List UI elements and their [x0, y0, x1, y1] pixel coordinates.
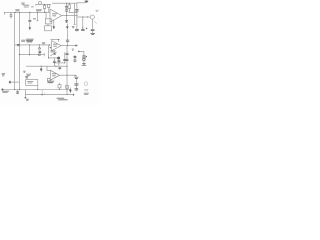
potentiometer dark blob — [57, 57, 60, 60]
label faint far right — [96, 10, 99, 11]
wire H6 with capacitor — [9, 81, 20, 83]
resistor R4 on Vc — [65, 86, 68, 89]
capacitor below H7 left — [17, 90, 19, 95]
label under ground right — [82, 65, 87, 67]
wire drop x25.4 with ground — [24, 90, 26, 98]
label bottom left — [26, 99, 29, 100]
wire U2 upper input — [51, 40, 59, 42]
ground below U1 — [53, 20, 55, 26]
dark label above box — [25, 77, 28, 78]
ground below H4 — [40, 66, 42, 68]
terminal mark H8 — [73, 94, 75, 96]
label corner text — [21, 3, 25, 4]
wire U1 output — [62, 15, 77, 17]
wire top rail right section — [52, 2, 86, 4]
label below U3 — [47, 81, 54, 82]
capacitor on drop 54.3 — [53, 58, 55, 66]
terminal mark output2 — [75, 45, 77, 47]
capacitor C11 — [83, 57, 85, 58]
node dot on rail — [44, 4, 45, 5]
label small text — [42, 43, 45, 44]
box power supply — [26, 80, 38, 86]
capacitor below blob — [58, 59, 60, 66]
ground bars — [91, 33, 96, 34]
diode D1 drop — [38, 45, 41, 55]
resistor R6 — [58, 85, 61, 88]
resistor R1 — [43, 5, 45, 8]
label smudge — [23, 71, 25, 72]
node left terminal stub — [3, 12, 5, 14]
ground at C4 chain — [66, 24, 68, 26]
label text above tone — [50, 51, 55, 52]
wire bus H7 — [2, 89, 70, 91]
wire top rail left section — [36, 4, 51, 5]
capacitor C3 chain above output — [66, 3, 68, 15]
polarized capacitor chain x76.4 — [75, 75, 77, 91]
wire U2 output — [61, 45, 76, 47]
capacitor C5 — [82, 17, 84, 29]
wire vertical bus Va — [14, 12, 16, 89]
capacitor chain x64.8 — [64, 52, 66, 63]
node VCC dot right — [78, 51, 80, 53]
wire H3 — [19, 54, 44, 56]
label small c2 — [33, 18, 36, 20]
resistor R1b — [48, 4, 50, 7]
wire bus H_b2 to U2 — [15, 44, 51, 46]
transistor Q2 — [90, 15, 94, 19]
wire H2 rail — [77, 16, 90, 18]
wire U3 input top — [47, 66, 50, 70]
op-amp U3 — [50, 70, 59, 80]
label under rail — [36, 10, 42, 11]
transistor Q3 faint — [84, 82, 88, 86]
wire main input bus H1 — [4, 11, 77, 13]
wire bus H4 — [26, 65, 67, 67]
wire H5 — [49, 57, 59, 59]
capacitor C4 polarized below output — [66, 16, 68, 21]
wire H at 62.9 — [54, 62, 65, 64]
resistor R2 drop — [36, 12, 38, 20]
wire U3 output — [60, 74, 77, 76]
label text right — [72, 27, 75, 28]
wire feedback drop x59.6 — [59, 83, 61, 90]
capacitor C6 — [91, 29, 95, 30]
label text C1 left — [2, 73, 5, 75]
transistor Q1 — [39, 1, 42, 4]
node dots on H1 — [15, 12, 16, 13]
polarized capacitor chain x74.9 — [74, 55, 76, 63]
capacitor C10 — [82, 56, 85, 57]
capacitor above apex — [58, 67, 61, 68]
label input text — [23, 5, 33, 7]
label under H7 left — [2, 91, 9, 92]
plus mark — [86, 56, 87, 57]
wire vertical bus Vb — [18, 12, 20, 89]
capacitor C2 — [29, 12, 31, 27]
relay box K1a — [45, 19, 52, 24]
wire to filter chain — [79, 51, 84, 55]
relay box K1b — [45, 26, 52, 31]
dark blob near U2 input — [50, 47, 52, 49]
wire drop to H3 — [29, 45, 31, 55]
wire vertical Vc — [66, 46, 68, 95]
wire vertical at 74.6 — [74, 3, 76, 24]
plus mark — [86, 28, 87, 29]
antenna flag J1 — [85, 1, 89, 3]
label audio output — [57, 98, 68, 100]
wire box to H7 — [37, 85, 39, 89]
wire bus H8 — [25, 94, 73, 96]
ground bars — [82, 62, 86, 65]
ground — [29, 27, 32, 30]
dark component end H7 — [69, 88, 71, 94]
capacitor C1 — [10, 12, 12, 18]
wire vertical at 76.9 with caps — [76, 3, 78, 32]
label text C2 bottom — [26, 74, 31, 75]
label text — [72, 49, 74, 50]
resistor R5 input bottom — [47, 78, 50, 81]
wire drop to H5 — [48, 45, 51, 58]
resistor R3 — [68, 3, 70, 5]
op-amp U2 — [52, 41, 62, 51]
op-amp U1 — [50, 9, 62, 22]
label right bottom — [84, 93, 89, 94]
capacitor C7 series — [17, 44, 18, 46]
label two line text — [26, 39, 33, 42]
label text near Vb — [21, 40, 26, 41]
label tp text — [15, 10, 20, 11]
capacitor C8 above output — [66, 30, 68, 46]
diagonal feedback wire — [50, 52, 56, 56]
